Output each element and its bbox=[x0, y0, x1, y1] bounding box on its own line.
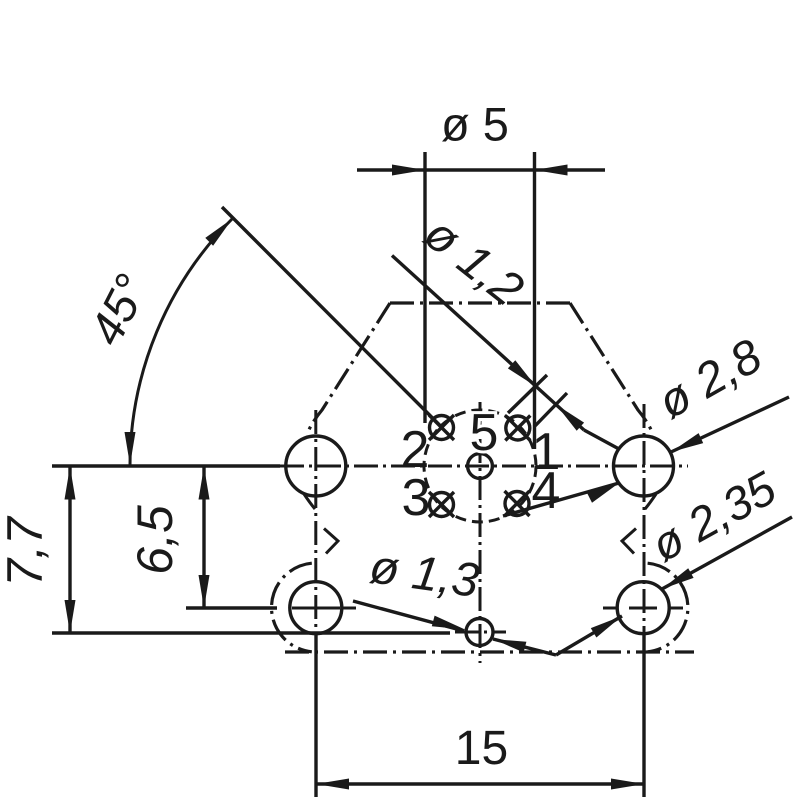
arrowhead ø5 right bbox=[535, 165, 568, 176]
connector outline below left circle bbox=[304, 494, 315, 509]
dimension line 15 bbox=[316, 782, 644, 785]
connector outline right lobe bbox=[648, 563, 688, 652]
arrowhead ø1,3 first bbox=[432, 616, 465, 630]
arrowhead arc bottom bbox=[125, 432, 136, 465]
connector outline below right circle bbox=[645, 494, 656, 509]
tail line ø1,3 second bbox=[493, 639, 556, 655]
reference line bottom 7,7 bbox=[52, 631, 450, 634]
tick 1 ø1,2 bbox=[508, 375, 547, 413]
arrowhead 6,5 top bbox=[199, 467, 210, 500]
leader line ø2,35 bbox=[662, 517, 792, 589]
arrowhead 7,7 top bbox=[65, 467, 76, 500]
crosshair ø1,3 bbox=[455, 631, 506, 634]
45 degree reference line bbox=[222, 207, 442, 427]
connector outline left notch bbox=[324, 529, 338, 554]
arrowhead arc top bbox=[205, 219, 232, 246]
reference line bottom 6,5 bbox=[186, 606, 277, 609]
arrowhead 7,7 bottom bbox=[65, 600, 76, 633]
hole ø1,3 bottom center bbox=[466, 619, 493, 646]
pin 4 bbox=[505, 491, 530, 516]
arrowhead ø1,2 first bbox=[508, 360, 536, 386]
pin 1 bbox=[505, 416, 530, 441]
arrowhead ø5 left bbox=[392, 165, 425, 176]
extension line right ø5 bbox=[533, 152, 536, 449]
connector outline left chamfer bbox=[307, 303, 390, 434]
hole left bottom ø2,35 bbox=[290, 582, 342, 634]
svg-text:5: 5 bbox=[470, 404, 499, 462]
crosshair lower-left hole bbox=[292, 607, 340, 610]
dimension line 6,5 bbox=[202, 466, 205, 608]
svg-text:15: 15 bbox=[455, 722, 508, 775]
horizontal centerline bbox=[280, 465, 688, 468]
45 degree dimension arc bbox=[130, 219, 233, 467]
connector outline bottom edge bbox=[285, 650, 694, 653]
extension line 15 left bbox=[314, 634, 317, 797]
arrowhead 15 right bbox=[611, 779, 644, 790]
svg-text:4: 4 bbox=[532, 462, 561, 520]
vertical centerline left bbox=[314, 410, 317, 633]
arrowhead ø2,35 second bbox=[591, 616, 622, 638]
center hole pin 5 bbox=[468, 454, 493, 479]
hole right bottom ø2,35 bbox=[617, 582, 669, 634]
svg-text:7,7: 7,7 bbox=[0, 515, 53, 587]
extension line left ø5 bbox=[423, 152, 426, 423]
pitch circle dashed bbox=[424, 410, 536, 522]
leader line ø2,8 bbox=[671, 397, 789, 452]
hole right middle ø2,8 bbox=[614, 436, 674, 496]
arrowhead ø1,3 second bbox=[493, 639, 526, 652]
horizontal reference line left bbox=[52, 464, 280, 467]
vertical centerline right bbox=[643, 404, 646, 633]
svg-text:3: 3 bbox=[402, 469, 431, 527]
connector outline left lobe bbox=[272, 563, 312, 652]
tick 2 ø1,2 bbox=[534, 393, 567, 427]
leader line ø1,3 bbox=[353, 601, 464, 631]
arrowhead ø2,35 first bbox=[662, 568, 694, 589]
vertical centerline middle bbox=[479, 402, 482, 663]
arrowhead ø1,2 second bbox=[556, 405, 584, 431]
svg-text:6,5: 6,5 bbox=[127, 505, 183, 575]
svg-text:ø 5: ø 5 bbox=[441, 98, 509, 151]
tail line ø2,35 second bbox=[556, 616, 622, 655]
pin 2 bbox=[429, 415, 454, 440]
arrowhead 6,5 bottom bbox=[199, 575, 210, 608]
connector outline right chamfer bbox=[570, 303, 653, 434]
dimension line ø5 bbox=[357, 168, 605, 171]
extension line 15 right bbox=[642, 634, 645, 797]
pin 3 bbox=[429, 492, 454, 517]
tail line ø2,8 second bbox=[503, 483, 619, 516]
hole left middle ø2,8 bbox=[286, 436, 346, 496]
leader line ø1,2 bbox=[392, 256, 584, 431]
crosshair lower-right hole bbox=[603, 607, 617, 610]
arrowhead ø2,8 second bbox=[587, 483, 619, 503]
arrowhead 15 left bbox=[316, 779, 349, 790]
arrowhead ø2,8 first bbox=[671, 433, 703, 452]
connector outline right notch bbox=[622, 529, 636, 554]
dimension line 7,7 bbox=[68, 466, 71, 633]
connector outline top edge bbox=[390, 301, 570, 304]
